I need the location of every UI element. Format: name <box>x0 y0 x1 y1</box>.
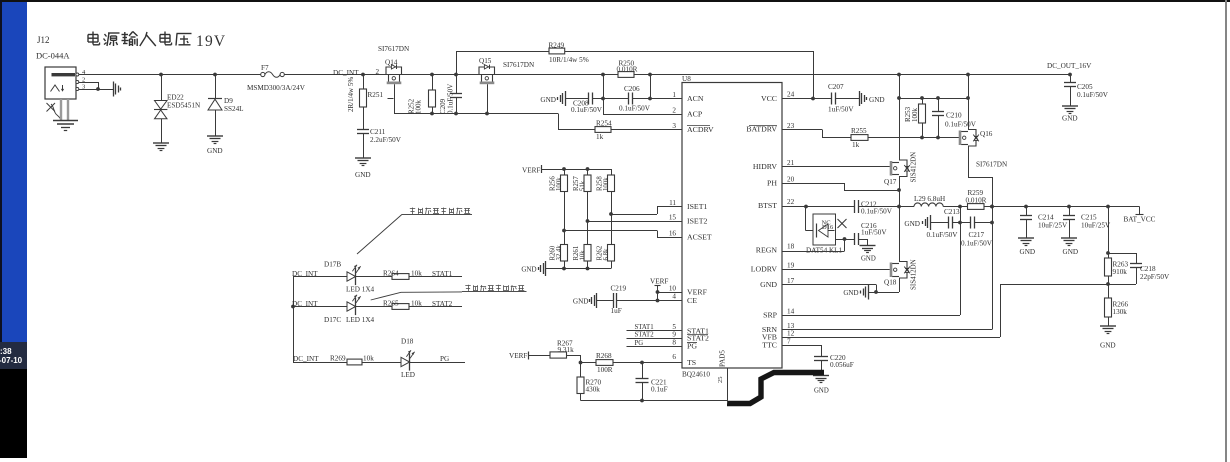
svg-text:VERF: VERF <box>522 167 540 175</box>
svg-text:2.2uF/50V: 2.2uF/50V <box>370 136 402 144</box>
svg-text:21: 21 <box>787 159 795 167</box>
svg-text:CE: CE <box>687 296 697 305</box>
svg-text:0.010R: 0.010R <box>966 196 987 204</box>
svg-text:DC_INT: DC_INT <box>333 69 359 77</box>
svg-text:STAT1: STAT1 <box>635 324 654 331</box>
svg-text:TS: TS <box>687 358 696 367</box>
svg-text:10uF/25V: 10uF/25V <box>1038 222 1068 230</box>
svg-text:100k: 100k <box>911 108 919 123</box>
svg-text:1uF/50V: 1uF/50V <box>828 106 854 114</box>
svg-text:0.1uF/50V: 0.1uF/50V <box>961 240 993 248</box>
svg-text:15: 15 <box>669 214 677 222</box>
svg-text:D9: D9 <box>224 97 233 105</box>
svg-text:0.1uF/50V: 0.1uF/50V <box>945 121 977 129</box>
svg-text:19: 19 <box>787 262 795 270</box>
svg-text:11: 11 <box>669 199 676 207</box>
svg-text:17: 17 <box>787 277 795 285</box>
svg-text:C207: C207 <box>828 83 844 91</box>
svg-text:7: 7 <box>787 338 791 346</box>
svg-text:SS24L: SS24L <box>224 105 244 113</box>
svg-text:SI7617DN: SI7617DN <box>976 161 1008 169</box>
svg-text:6: 6 <box>672 353 676 361</box>
svg-text:2: 2 <box>672 107 676 115</box>
svg-text:0.010R: 0.010R <box>617 65 638 73</box>
svg-text:0.1uF/50V: 0.1uF/50V <box>619 105 651 113</box>
svg-text:18: 18 <box>787 243 795 251</box>
svg-text:910k: 910k <box>1113 268 1128 276</box>
svg-text:0.1uF/50V: 0.1uF/50V <box>861 208 893 216</box>
svg-text:100k: 100k <box>556 177 563 191</box>
svg-text:12: 12 <box>787 330 795 338</box>
svg-text:10k: 10k <box>411 300 422 308</box>
svg-text:4: 4 <box>672 293 676 301</box>
svg-text:C213: C213 <box>944 208 960 216</box>
svg-text:C205: C205 <box>1077 83 1093 91</box>
svg-text:R251: R251 <box>368 91 384 99</box>
svg-text:BAT_VCC: BAT_VCC <box>1124 216 1156 224</box>
svg-text:100R: 100R <box>597 366 613 374</box>
svg-text:100k: 100k <box>415 100 423 115</box>
svg-text:C214: C214 <box>1038 214 1054 222</box>
svg-text:ISET2: ISET2 <box>687 217 707 226</box>
svg-text:REGN: REGN <box>756 246 778 255</box>
svg-text:ACP: ACP <box>687 110 703 119</box>
svg-text:STAT2: STAT2 <box>635 332 655 339</box>
svg-text:9: 9 <box>672 331 676 339</box>
svg-text:2: 2 <box>82 77 85 84</box>
svg-text:9.31k: 9.31k <box>558 346 575 354</box>
svg-text:10R/1/4w 5%: 10R/1/4w 5% <box>549 56 589 64</box>
svg-text:DC_INT: DC_INT <box>292 300 318 308</box>
svg-text:GND: GND <box>1062 115 1078 123</box>
svg-text:GND: GND <box>814 388 829 395</box>
svg-text:LED 1X4: LED 1X4 <box>346 316 375 324</box>
svg-text:430k: 430k <box>586 386 601 394</box>
svg-text:32.4k: 32.4k <box>556 245 563 261</box>
svg-text:0.1uF/50V: 0.1uF/50V <box>447 84 455 114</box>
svg-text:GND: GND <box>540 96 556 104</box>
svg-text:PH: PH <box>767 179 777 188</box>
svg-text:51k: 51k <box>580 180 587 191</box>
svg-text:1uF/50V: 1uF/50V <box>861 229 887 237</box>
svg-text:0.1uF/50V: 0.1uF/50V <box>571 106 603 114</box>
svg-text:SI7617DN: SI7617DN <box>378 45 410 53</box>
svg-text:SI7617DN: SI7617DN <box>503 61 535 69</box>
svg-text:D16: D16 <box>822 224 834 231</box>
svg-text:GND: GND <box>869 96 885 104</box>
svg-text:R268: R268 <box>596 352 612 360</box>
svg-text:14: 14 <box>787 308 795 316</box>
svg-text:ACDRV: ACDRV <box>687 125 714 134</box>
svg-text:C218: C218 <box>1140 265 1156 273</box>
svg-text:ESD5451N: ESD5451N <box>167 102 201 110</box>
svg-text:DAT54 KL1: DAT54 KL1 <box>806 247 843 255</box>
svg-text:Q14: Q14 <box>385 59 398 67</box>
svg-text:C217: C217 <box>969 231 985 239</box>
svg-text:D17B: D17B <box>324 261 341 269</box>
svg-text:C219: C219 <box>611 285 627 293</box>
svg-text:BQ24610: BQ24610 <box>682 371 710 379</box>
svg-text:R254: R254 <box>596 120 612 128</box>
svg-text:U8: U8 <box>682 75 691 83</box>
svg-text:F7: F7 <box>261 64 269 72</box>
svg-text:6.8k: 6.8k <box>603 248 610 260</box>
svg-text:PG: PG <box>635 340 644 347</box>
svg-text:J12: J12 <box>37 35 50 45</box>
svg-text:GND: GND <box>521 266 536 274</box>
svg-text:25: 25 <box>717 377 724 384</box>
svg-text:DC_OUT_16V: DC_OUT_16V <box>1047 62 1092 70</box>
svg-text:R255: R255 <box>851 127 867 135</box>
svg-text:100k: 100k <box>603 177 610 191</box>
svg-text:10: 10 <box>669 285 677 293</box>
svg-text:Q18: Q18 <box>884 279 897 287</box>
svg-text:1k: 1k <box>596 133 604 141</box>
svg-text:ACSET: ACSET <box>687 233 712 242</box>
svg-text:0.1uF/50V: 0.1uF/50V <box>927 231 959 239</box>
svg-text:GND: GND <box>904 220 920 228</box>
svg-text:22pF/50V: 22pF/50V <box>1140 273 1170 281</box>
svg-text:10k: 10k <box>411 270 422 278</box>
svg-text:D17C: D17C <box>324 316 341 324</box>
svg-text:DC_INT: DC_INT <box>293 355 319 363</box>
svg-text:HIDRV: HIDRV <box>753 162 777 171</box>
svg-text:1uF: 1uF <box>611 307 622 315</box>
svg-text:ACN: ACN <box>687 94 704 103</box>
svg-text:GND: GND <box>760 280 777 289</box>
svg-text:PAD5: PAD5 <box>719 350 727 367</box>
svg-text:Q17: Q17 <box>884 178 897 186</box>
svg-text:MSMD300/3A/24V: MSMD300/3A/24V <box>247 84 306 92</box>
svg-text:3: 3 <box>672 122 676 130</box>
svg-text:10k: 10k <box>363 355 374 363</box>
svg-text:130k: 130k <box>1113 308 1128 316</box>
svg-text:STAT2: STAT2 <box>432 300 453 308</box>
svg-text:Q15: Q15 <box>479 57 492 65</box>
svg-text:DC_INT: DC_INT <box>292 270 318 278</box>
svg-text:1: 1 <box>672 91 676 99</box>
svg-text:3: 3 <box>82 84 85 91</box>
svg-text:LED 1X4: LED 1X4 <box>346 286 375 294</box>
svg-text:C210: C210 <box>946 112 962 120</box>
svg-text:C211: C211 <box>370 128 386 136</box>
svg-text:16: 16 <box>669 230 677 238</box>
svg-text:0.056uF: 0.056uF <box>830 361 854 369</box>
svg-text:ISET1: ISET1 <box>687 202 707 211</box>
svg-text:SIS412DN: SIS412DN <box>910 259 918 290</box>
svg-text:10k: 10k <box>580 250 587 261</box>
svg-text:0.1uF: 0.1uF <box>651 386 668 394</box>
svg-text:22: 22 <box>787 198 795 206</box>
svg-text:DC-044A: DC-044A <box>36 51 70 61</box>
svg-text:ED22: ED22 <box>167 94 184 102</box>
svg-text:GND: GND <box>1063 248 1079 256</box>
svg-text:D18: D18 <box>401 338 414 346</box>
svg-text:24: 24 <box>787 91 795 99</box>
svg-text:TTC: TTC <box>762 341 777 350</box>
svg-text:GND: GND <box>207 147 223 155</box>
svg-text:C215: C215 <box>1081 214 1097 222</box>
svg-text:GND: GND <box>355 171 371 179</box>
svg-text:R249: R249 <box>549 42 565 50</box>
svg-text:R269: R269 <box>330 355 346 363</box>
svg-text:2: 2 <box>376 68 380 76</box>
svg-text:SRP: SRP <box>763 311 778 320</box>
svg-text:VCC: VCC <box>761 94 777 103</box>
svg-text:BTST: BTST <box>758 201 777 210</box>
svg-text:GND: GND <box>1020 248 1036 256</box>
svg-text:PG: PG <box>440 355 449 363</box>
svg-text:GND: GND <box>573 297 589 305</box>
svg-text:19V: 19V <box>196 33 226 50</box>
svg-text:2R/1/4w 5%: 2R/1/4w 5% <box>347 77 355 112</box>
svg-text:R264: R264 <box>383 270 399 278</box>
svg-text:20: 20 <box>787 176 795 184</box>
svg-text:C206: C206 <box>624 85 640 93</box>
svg-text:10uF/25V: 10uF/25V <box>1081 222 1111 230</box>
svg-text:LED: LED <box>401 371 415 379</box>
svg-text:1k: 1k <box>852 141 860 149</box>
svg-text:GND: GND <box>1100 342 1116 350</box>
svg-text:Q16: Q16 <box>980 130 993 138</box>
svg-text:GND: GND <box>861 256 876 263</box>
svg-text:8: 8 <box>672 339 676 347</box>
svg-text:GND: GND <box>843 289 858 297</box>
svg-text:L29 6.8uH: L29 6.8uH <box>914 195 945 203</box>
svg-text:R265: R265 <box>383 300 399 308</box>
svg-text:LODRV: LODRV <box>751 265 778 274</box>
svg-text:STAT1: STAT1 <box>432 270 453 278</box>
svg-text:0.1uF/50V: 0.1uF/50V <box>1077 91 1109 99</box>
svg-text:VERF: VERF <box>650 278 668 286</box>
svg-text:23: 23 <box>787 122 795 130</box>
svg-text:SIS412DN: SIS412DN <box>910 152 918 183</box>
svg-text:VERF: VERF <box>509 352 527 360</box>
